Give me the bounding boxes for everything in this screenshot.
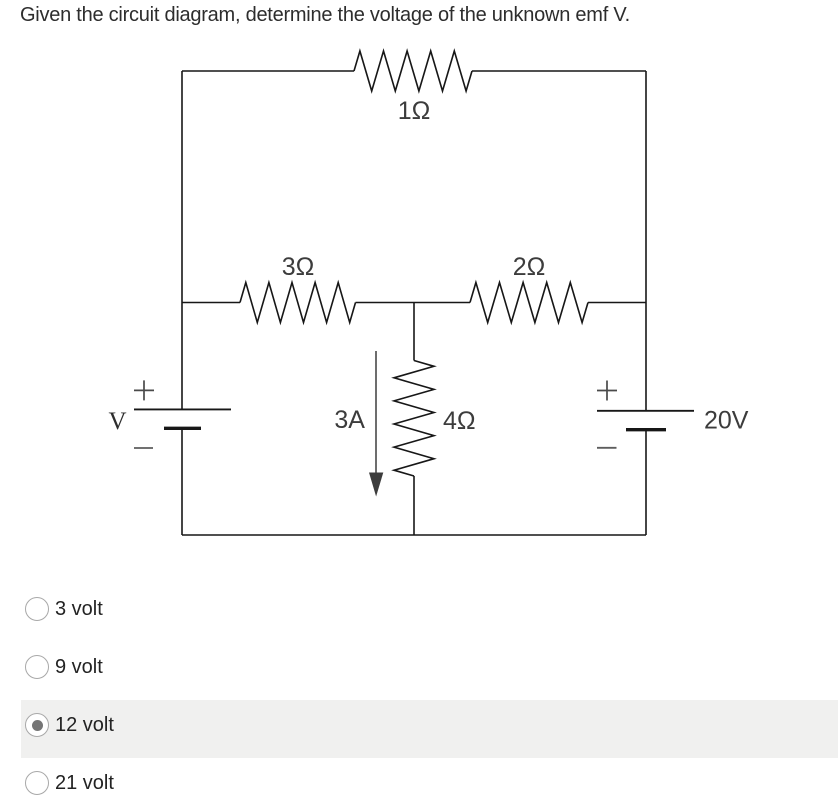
wire bottom rail xyxy=(182,534,646,536)
battery B1 V negative plate xyxy=(164,427,201,430)
question title xyxy=(20,4,630,27)
node junction middle xyxy=(413,303,415,361)
resistor R3 2ohm (middle right) xyxy=(470,283,588,323)
wire middle-center segment xyxy=(356,302,471,304)
circuit schematic xyxy=(0,0,838,560)
answer option 1: 3 volt xyxy=(0,580,838,638)
battery B2 plus sign xyxy=(597,381,617,401)
wire top-right segment xyxy=(472,70,646,72)
wire right side lower xyxy=(645,430,647,535)
svg-text:2Ω: 2Ω xyxy=(513,253,546,281)
resistor R4 4ohm (center vertical) xyxy=(394,361,434,477)
answer option 4: 21 volt xyxy=(0,754,838,812)
wire right side upper (top rail to battery 20V) xyxy=(645,71,647,411)
svg-text:4Ω: 4Ω xyxy=(443,407,476,435)
battery B1 V positive plate xyxy=(134,408,231,410)
wire left side lower xyxy=(181,428,183,535)
svg-text:20V: 20V xyxy=(704,407,749,435)
svg-text:3A: 3A xyxy=(334,406,365,434)
wire middle-left segment xyxy=(182,302,240,304)
answer option 3: 12 volt (selected) xyxy=(21,700,838,758)
wire left side upper (top rail to battery V) xyxy=(181,71,183,409)
battery B2 minus sign xyxy=(597,447,617,449)
battery B1 plus sign xyxy=(134,380,154,400)
battery B2 20V positive plate xyxy=(597,410,694,412)
wire middle-right segment xyxy=(588,302,646,304)
svg-text:V: V xyxy=(108,408,126,435)
resistor R1 1ohm (top) xyxy=(354,51,472,91)
answer option 2: 9 volt xyxy=(0,638,838,696)
wire top-left segment xyxy=(182,70,354,72)
battery B2 20V negative plate xyxy=(626,428,666,431)
wire center lower segment xyxy=(413,476,415,535)
svg-text:1Ω: 1Ω xyxy=(398,97,431,125)
battery B1 minus sign xyxy=(134,447,153,449)
resistor R2 3ohm (middle left) xyxy=(240,283,356,323)
current arrow 3A xyxy=(375,351,377,473)
svg-text:3Ω: 3Ω xyxy=(282,253,315,281)
